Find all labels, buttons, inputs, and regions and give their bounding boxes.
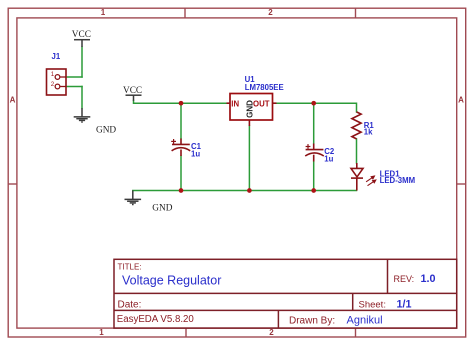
svg-text:IN: IN <box>231 99 239 108</box>
svg-text:1/1: 1/1 <box>397 299 412 311</box>
svg-text:Sheet:: Sheet: <box>359 300 386 311</box>
svg-text:1k: 1k <box>364 128 373 137</box>
svg-text:1u: 1u <box>324 155 333 164</box>
svg-text:1u: 1u <box>191 149 200 158</box>
svg-text:GND: GND <box>96 126 116 136</box>
svg-text:Date:: Date: <box>118 300 142 311</box>
svg-text:TITLE:: TITLE: <box>118 263 142 272</box>
svg-text:A: A <box>458 96 464 105</box>
svg-text:LM7805EE: LM7805EE <box>245 83 284 92</box>
svg-text:Agnikul: Agnikul <box>347 315 383 327</box>
svg-text:2: 2 <box>269 328 274 337</box>
svg-text:VCC: VCC <box>72 30 91 40</box>
svg-text:Voltage Regulator: Voltage Regulator <box>122 273 221 287</box>
svg-text:OUT: OUT <box>253 99 270 108</box>
svg-text:GND: GND <box>152 203 172 213</box>
svg-text:1: 1 <box>101 8 106 17</box>
svg-text:EasyEDA V5.8.20: EasyEDA V5.8.20 <box>117 314 195 325</box>
svg-text:A: A <box>10 96 16 105</box>
svg-text:Drawn By:: Drawn By: <box>289 316 335 327</box>
svg-text:J1: J1 <box>52 52 61 61</box>
svg-text:GND: GND <box>246 100 255 118</box>
svg-text:REV:: REV: <box>394 274 415 284</box>
svg-text:LED-3MM: LED-3MM <box>380 176 416 185</box>
svg-text:2: 2 <box>51 81 55 88</box>
svg-text:VCC: VCC <box>123 86 142 96</box>
svg-text:2: 2 <box>268 8 273 17</box>
svg-text:1.0: 1.0 <box>421 273 436 285</box>
svg-text:1: 1 <box>99 328 104 337</box>
svg-text:1: 1 <box>51 71 55 78</box>
